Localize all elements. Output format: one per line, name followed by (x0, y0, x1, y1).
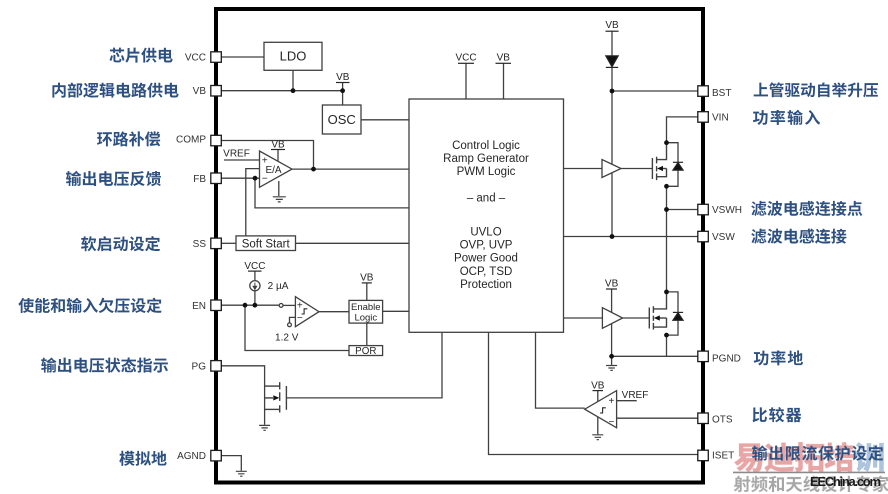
wire EN pin to comparator (221, 304, 279, 306)
wire driver to low-side gate (623, 317, 650, 319)
svg-text:2 µA: 2 µA (268, 281, 289, 292)
svg-text:OSC: OSC (328, 112, 356, 127)
pin SS (211, 238, 222, 249)
pin VSWH (698, 204, 709, 215)
wire low-side source to PGND rail (666, 335, 668, 356)
svg-text:+: + (297, 301, 303, 312)
svg-text:AGND: AGND (177, 451, 206, 462)
wire VSWH pin (667, 209, 700, 211)
node VIN / drain junction (664, 140, 669, 145)
label 使能和输入欠压设定 (18, 298, 161, 313)
wire driver to high-side gate (621, 168, 652, 170)
wire VB bar to Enable Logic (366, 283, 368, 301)
svg-text:VCC: VCC (244, 261, 265, 272)
wire OTS comparator out to block bottom (536, 332, 585, 408)
current source I1 arrow (253, 283, 257, 290)
svg-text:Ramp Generator: Ramp Generator (443, 153, 529, 165)
label 功率输入 (753, 110, 820, 125)
wire VB to block top (503, 63, 505, 99)
pin VSW (698, 231, 709, 242)
ground below OTS comparator (592, 435, 603, 440)
wire VB bar to boost diode (611, 31, 613, 56)
svg-text:Protection: Protection (460, 279, 512, 291)
wire FB to E/A - input (221, 177, 260, 179)
current source I1 circle (250, 281, 260, 291)
wire block to low-side driver (564, 317, 603, 319)
wire LDO output down to VB rail (292, 70, 294, 90)
label 上管驱动自举升压 (754, 82, 878, 97)
node EN open circle (279, 304, 283, 308)
svg-text:VB: VB (605, 279, 619, 290)
supply VB bar (Enable Logic) (362, 282, 372, 284)
buffer low-side driver (602, 308, 622, 329)
supply VB bar (block top) (496, 62, 512, 64)
diode D3 body diode of Q2 (667, 292, 679, 335)
node VB rail / OSC junction (340, 88, 345, 93)
svg-text:VB: VB (605, 20, 619, 31)
wire FB junction down to block (255, 178, 409, 208)
svg-text:SS: SS (193, 239, 207, 250)
wire OTS pin to comparator - input (617, 417, 699, 419)
pin ISET (698, 450, 709, 461)
wire AGND pin to ground (221, 456, 241, 471)
svg-text:LDO: LDO (280, 49, 307, 64)
wire VB supply to OSC (342, 83, 344, 106)
pin VB (211, 86, 222, 97)
svg-text:EEChina.com: EEChina.com (810, 474, 881, 489)
svg-text:VB: VB (591, 380, 605, 391)
wire VREF to E/A + input (224, 159, 260, 161)
svg-text:E/A: E/A (265, 165, 281, 176)
wire EN comparator out to Enable Logic (319, 311, 349, 313)
node low-side drain junction (664, 290, 669, 295)
label 输出电压反馈 (66, 171, 161, 186)
svg-text:OCP, TSD: OCP, TSD (460, 266, 513, 278)
svg-text:VREF: VREF (223, 149, 250, 160)
wire soft-start to E/A 2nd input (246, 169, 260, 236)
transistor Q3 PG open-drain NMOS (265, 382, 287, 412)
supply VCC bar (current source) (248, 270, 262, 272)
svg-text:Power Good: Power Good (454, 253, 518, 265)
transistor Q3 arrow (273, 395, 279, 400)
svg-text:VB: VB (271, 139, 285, 150)
supply VCC bar (block top) (458, 62, 474, 64)
wire VB rail (221, 90, 343, 92)
svg-text:EnableLogic: EnableLogic (351, 302, 381, 323)
ground at PGND rail (606, 366, 617, 371)
supply VB bar (top left) (336, 82, 350, 84)
diode D1 boost (BST) (606, 56, 618, 68)
svg-text:VCC: VCC (185, 53, 206, 64)
svg-text:VB: VB (360, 273, 374, 284)
wire PGND rail (612, 355, 699, 357)
wire Enable Logic to block (383, 310, 409, 312)
pin AGND (211, 450, 222, 461)
svg-text:OVP, UVP: OVP, UVP (460, 240, 513, 252)
diode D2 body diode of Q1 (667, 143, 679, 187)
pin PGND (698, 351, 709, 362)
comparator EN (295, 297, 319, 327)
op-amp E/A (260, 151, 293, 187)
wire open circle to comparator + input (283, 304, 295, 306)
ground below E/A (273, 197, 286, 202)
wire VCC to block top (465, 63, 467, 99)
transistor Q1 arrow (657, 166, 663, 171)
wire POR back to EN rail (245, 305, 349, 350)
node EN / current source junction (253, 303, 258, 308)
pin OTS (698, 413, 709, 424)
label 输出电压状态指示 (41, 357, 168, 372)
svg-text:1.2 V: 1.2 V (275, 333, 299, 344)
watermark gray slogan paths (734, 476, 888, 493)
svg-text:– and –: – and – (467, 193, 506, 205)
hysteresis glyph OTS comparator (600, 408, 606, 413)
OSC block (322, 105, 361, 134)
supply VB bar (OTS comparator) (593, 390, 604, 392)
svg-text:VREF: VREF (622, 390, 649, 401)
wire BST to VSW rail (611, 91, 613, 237)
node BST junction (610, 89, 615, 94)
wire E/A output to block (292, 168, 409, 170)
svg-text:PWM Logic: PWM Logic (457, 166, 516, 178)
supply VB bar (E/A) (271, 149, 285, 151)
wire high-side source chain to low-side drain (666, 186, 668, 292)
wire block to high-side driver (564, 168, 603, 170)
hysteresis glyph EN comparator (302, 309, 308, 314)
node 1.2V open circle (288, 323, 292, 327)
svg-text:POR: POR (355, 346, 376, 357)
node COMP / E/A output junction (311, 167, 316, 172)
pin EN (211, 300, 222, 311)
svg-text:VCC: VCC (455, 53, 476, 64)
ground below PG transistor (259, 425, 270, 430)
svg-text:Control Logic: Control Logic (452, 140, 520, 152)
pin COMP (211, 135, 222, 146)
Enable Logic block (349, 300, 383, 323)
svg-text:VB: VB (497, 53, 511, 64)
wire OSC to control block (361, 119, 409, 121)
POR block (349, 346, 383, 356)
transistor Q2 low-side NMOS (649, 292, 666, 330)
label 比较器 (752, 407, 801, 422)
svg-text:Soft Start: Soft Start (242, 238, 291, 250)
pin BST (698, 86, 709, 97)
svg-text:VB: VB (336, 72, 350, 83)
pin FB (211, 173, 222, 184)
wire VREF to OTS comparator + input (617, 400, 637, 402)
svg-text:−: − (262, 174, 268, 185)
svg-text:EN: EN (192, 301, 206, 312)
node source / diode junction (664, 184, 669, 189)
label 滤波电感连接 (751, 229, 846, 244)
wire VB bar through OTS comparator to ground (597, 391, 599, 435)
node BST cap / VSW junction (610, 234, 615, 239)
svg-text:−: − (608, 417, 614, 428)
Soft Start block (236, 236, 296, 251)
svg-text:PG: PG (192, 361, 207, 372)
label 模拟地 (119, 451, 166, 466)
wire boost diode to BST pin (612, 67, 699, 91)
label 输出限流保护设定 (752, 445, 883, 460)
wire ISET pin to block bottom (489, 332, 700, 454)
wire COMP to E/A output (221, 141, 314, 170)
svg-text:OTS: OTS (712, 414, 733, 425)
svg-text:VB: VB (193, 86, 207, 97)
wire VCC pin to LDO (221, 56, 264, 58)
supply VB bar (low-side driver) (606, 288, 617, 290)
pin VCC (211, 52, 222, 63)
transistor Q1 high-side NMOS (652, 143, 666, 180)
svg-text:+: + (608, 396, 614, 407)
node VSWH junction (664, 207, 669, 212)
svg-text:+: + (262, 155, 268, 166)
wire 1.2V ref to comparator - input (290, 317, 296, 323)
wire PG transistor gate to block (286, 332, 442, 398)
wire PG pin to transistor drain (221, 366, 265, 425)
svg-text:BST: BST (712, 88, 731, 99)
svg-text:FB: FB (193, 174, 206, 185)
wire VB bar to E/A top (277, 150, 279, 162)
wire current source to EN rail (254, 291, 256, 305)
svg-text:VSW: VSW (712, 232, 735, 243)
svg-text:ISET: ISET (712, 451, 734, 462)
node VB rail / LDO junction (291, 88, 296, 93)
wire VB bar through low-side driver to PGND rail (611, 289, 613, 356)
label 内部逻辑电路供电 (52, 82, 178, 97)
node FB junction (253, 176, 258, 181)
svg-text:PGND: PGND (712, 353, 741, 364)
label 软启动设定 (81, 236, 160, 251)
wire VIN pin to high-side drain (667, 117, 700, 143)
comparator OTS (585, 391, 617, 428)
wire VCC bar to current source (254, 271, 256, 281)
node low-side source junction (664, 333, 669, 338)
control logic block U1 (409, 99, 564, 332)
svg-text:UVLO: UVLO (470, 227, 501, 239)
chip border (216, 9, 703, 483)
ground at AGND (236, 471, 247, 476)
watermark red 易迪拓培 (734, 442, 855, 472)
node EN / POR junction (243, 303, 248, 308)
svg-text:VIN: VIN (712, 113, 729, 124)
wire E/A to ground (278, 181, 280, 196)
watermark blue 训 (855, 442, 884, 472)
wire Enable Logic to POR (366, 323, 368, 346)
wire VSW rail (564, 236, 700, 238)
node PGND ground junction (609, 354, 614, 359)
pin PG (211, 361, 222, 372)
label 芯片供电 (109, 48, 172, 63)
label 功率地 (754, 350, 803, 365)
supply VB bar (BST diode) (606, 30, 619, 32)
transistor Q2 arrow (654, 315, 660, 320)
wire Soft Start box to block (296, 242, 410, 244)
svg-text:COMP: COMP (176, 135, 206, 146)
label 环路补偿 (97, 131, 160, 146)
wire SS pin to Soft Start box (221, 242, 236, 244)
wire PGND ground stub (611, 356, 613, 365)
pin VIN (698, 112, 709, 123)
label 滤波电感连接点 (751, 201, 862, 216)
svg-text:VSWH: VSWH (712, 205, 742, 216)
LDO block (264, 42, 322, 70)
watermark underline (733, 471, 885, 473)
buffer high-side driver (602, 160, 621, 178)
